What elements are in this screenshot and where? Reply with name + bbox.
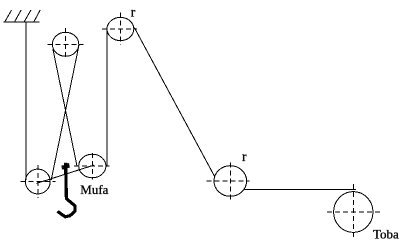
svg-text:r: r [242, 149, 247, 164]
label r for pulley R2 [242, 149, 247, 164]
centerline horizontal of pulley L2 [74, 165, 109, 167]
wire: rope from pulley R1 diagonally down to pulley R2 [134, 28, 215, 177]
pulley R2 (lower right fixed pulley, radius r) [214, 166, 247, 197]
pulley R1 (top right fixed pulley, radius r) [107, 17, 134, 40]
centerline vertical of pulley R2 [229, 162, 231, 200]
pulley T (top fixed pulley) [52, 32, 78, 56]
wire: rope from right side of pulley L2 up to pulley R1 [106, 29, 108, 166]
ceiling hatch mark 2 [15, 10, 22, 22]
centerline vertical of drum Toba [352, 184, 354, 239]
wire: rope B from left side of pulley T down to pulley L2 (crossing rope A) [53, 49, 77, 166]
wire: block bar joining the two movable pulleys [37, 165, 95, 183]
ceiling hatch mark 1 [5, 10, 12, 22]
pulley L2 (right movable pulley of the block) [79, 154, 106, 178]
wire: rope from ceiling down to left movable pulley [25, 22, 27, 180]
wire: rope from pulley R2 to drum Toba [244, 189, 356, 191]
label r for pulley R1 [131, 5, 136, 20]
centerline horizontal of pulley T [48, 43, 84, 45]
ceiling hatch mark 3 [24, 10, 31, 22]
centerline vertical of pulley R1 [119, 12, 121, 45]
centerline horizontal of pulley R2 [207, 180, 250, 182]
centerline horizontal of drum Toba [327, 211, 381, 213]
pulley L1 (left movable pulley of the block) [25, 169, 50, 194]
centerline vertical of pulley L2 [91, 153, 93, 180]
svg-text:r: r [131, 5, 136, 20]
centerline horizontal of pulley L1 [20, 181, 55, 183]
centerline horizontal of pulley R1 [102, 28, 137, 30]
svg-text:Mufa: Mufa [80, 182, 108, 197]
wire: rope A from right side of pulley L1 up over pulley T (crossing rope B) [51, 45, 79, 180]
hook of the block (Mufa) [58, 168, 76, 217]
ceiling support bar [4, 21, 40, 23]
centerline vertical of pulley T [65, 28, 67, 59]
label Mufa [80, 182, 108, 197]
svg-text:Toba: Toba [373, 226, 399, 241]
label Toba [373, 226, 399, 241]
drum Toba [334, 192, 373, 233]
hook attachment knob of the block [62, 163, 70, 171]
ceiling hatch mark 4 [34, 10, 40, 22]
centerline vertical of pulley L1 [37, 165, 39, 198]
